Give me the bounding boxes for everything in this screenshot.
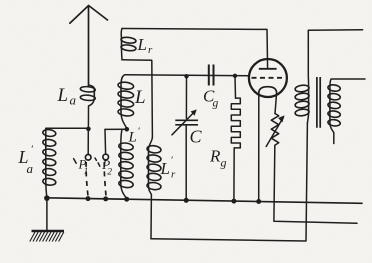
node A junction (86, 127, 91, 132)
capacitor C arrow (172, 111, 196, 135)
tube filament arch (259, 87, 277, 95)
junction dot grid/C (184, 74, 188, 78)
tube plate (259, 68, 277, 70)
node B junction (125, 127, 130, 132)
wire grid to C (185, 76, 187, 118)
wire Lr' bottom to transformer (151, 123, 307, 241)
tube U1 envelope (249, 59, 287, 97)
wire Rg to bus (233, 148, 235, 201)
capacitor C plates (175, 120, 198, 125)
switch P1 (87, 131, 89, 154)
wire filament left to bus (258, 95, 260, 202)
inductor L' (118, 142, 133, 151)
wire rheostat to A battery (274, 148, 357, 223)
switch P2 (104, 129, 107, 154)
resistor Rg (231, 98, 240, 148)
inductor Lr' (147, 145, 162, 154)
inductor La' (42, 129, 56, 137)
junction dot bus/P2 (103, 196, 108, 201)
wire Lr bottom to Lr' top (122, 60, 152, 137)
capacitor Cg (209, 65, 214, 86)
junction dot grid/Rg (233, 74, 237, 78)
antenna (70, 6, 108, 86)
tube grid (dashed) (252, 77, 285, 79)
inductor L (118, 81, 134, 90)
wire grid (125, 75, 249, 76)
junction dot bus/P1 (86, 196, 91, 201)
inductor Lr (121, 37, 137, 44)
ground bus wire (46, 198, 362, 204)
wire B+ top right (308, 29, 362, 31)
wire C to bus (185, 125, 187, 201)
wire node A to La' top (46, 127, 89, 129)
junction dot bus/L' bottom (124, 197, 129, 202)
wire plate top (122, 29, 268, 69)
ground (46, 198, 48, 230)
junction dot bus/La' bottom (44, 195, 50, 201)
wire node B to P2 (105, 128, 127, 130)
wire grid to Rg (234, 76, 237, 98)
rheostat arrow (266, 117, 283, 147)
rheostat (filament) (271, 114, 278, 149)
transformer core (317, 77, 320, 128)
junction dot bus/filament (256, 199, 261, 204)
inductor La (80, 86, 95, 92)
junction dot bus/Rg bottom (231, 199, 236, 204)
transformer secondary coil (328, 84, 341, 92)
wire filament right to rheostat (275, 94, 277, 113)
transformer primary coil (295, 84, 310, 92)
junction dot bus/C bottom (184, 198, 189, 203)
